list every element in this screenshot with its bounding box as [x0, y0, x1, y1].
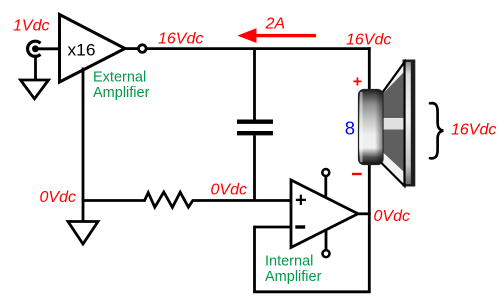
svg-text:+: + — [353, 73, 362, 90]
svg-text:Internal: Internal — [265, 254, 313, 270]
svg-text:0Vdc: 0Vdc — [40, 189, 76, 206]
svg-text:16Vdc: 16Vdc — [451, 122, 496, 139]
svg-text:16Vdc: 16Vdc — [158, 30, 203, 47]
svg-text:0Vdc: 0Vdc — [211, 181, 247, 198]
svg-text:+: + — [295, 190, 307, 212]
svg-text:External: External — [93, 70, 146, 86]
svg-text:2A: 2A — [265, 15, 286, 32]
svg-text:Amplifier: Amplifier — [93, 85, 150, 101]
svg-text:0Vdc: 0Vdc — [374, 208, 410, 225]
svg-text:16Vdc: 16Vdc — [346, 32, 391, 49]
svg-text:1Vdc: 1Vdc — [13, 18, 49, 35]
svg-text:Amplifier: Amplifier — [265, 269, 322, 285]
svg-text:x16: x16 — [68, 40, 96, 59]
svg-text:8: 8 — [345, 118, 355, 139]
